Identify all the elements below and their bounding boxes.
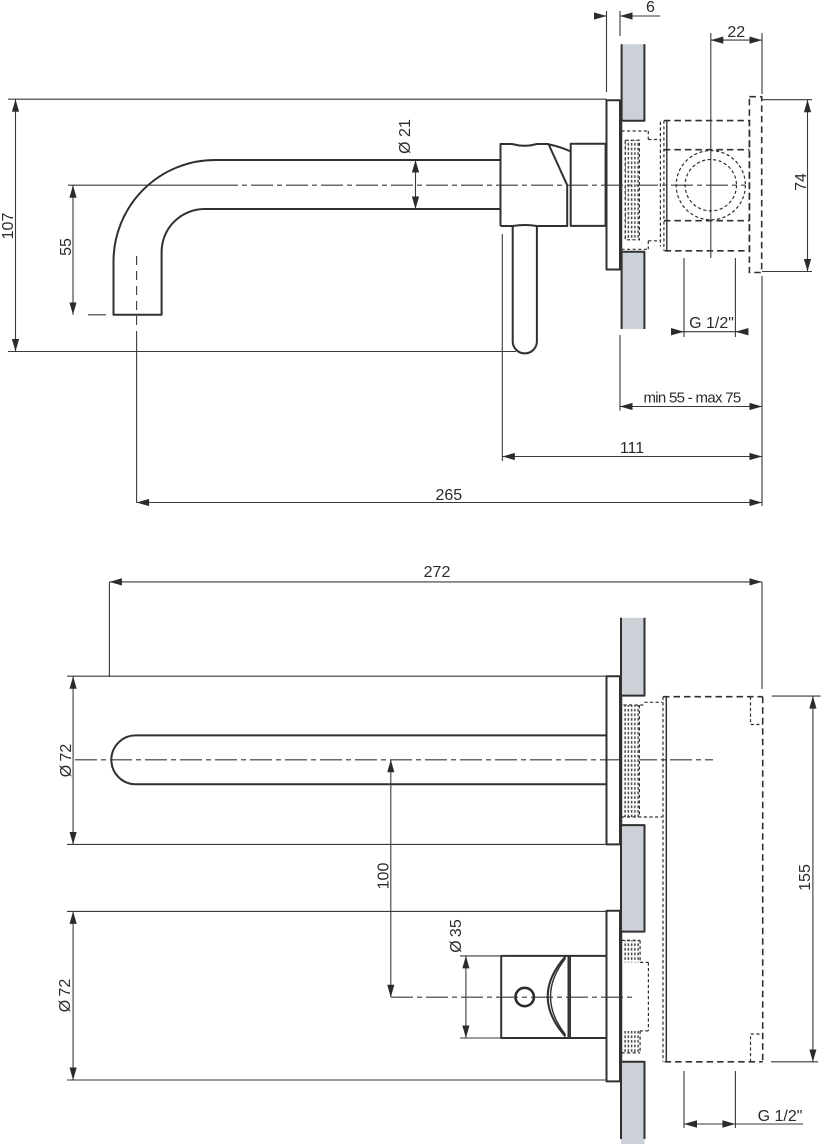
spout outline (114, 160, 501, 315)
svg-text:22: 22 (727, 24, 745, 41)
port outer circle (676, 151, 745, 220)
port inner circle (685, 160, 736, 211)
thread hatch block (625, 140, 639, 240)
spout thread hatch (623, 705, 639, 817)
lever handle (513, 226, 537, 353)
back plate hidden rect (749, 97, 761, 273)
svg-text:55: 55 (58, 238, 75, 256)
valve body plan hidden outline (662, 697, 664, 1062)
dimension min 55 - max 75 (620, 276, 762, 506)
body plan top notch (751, 697, 763, 725)
svg-text:G 1/2": G 1/2" (758, 1108, 803, 1125)
handle escutcheon plan (607, 911, 621, 1082)
spout plan centerline (75, 759, 713, 761)
svg-text:6: 6 (646, 0, 655, 16)
svg-text:G 1/2": G 1/2" (689, 315, 734, 332)
lever silhouette arc (550, 145, 571, 152)
spout thread dashed outline (621, 702, 662, 817)
dimension 22 (761, 33, 763, 94)
handle centerline (391, 996, 632, 998)
valve body hidden rect (664, 121, 750, 251)
dimension 55 (88, 314, 106, 316)
spout plan outline (111, 735, 606, 784)
wall bar 2 (621, 825, 645, 932)
body edge dashed pair (659, 122, 661, 247)
handle rough-in front face line (620, 932, 622, 1062)
sleeve (571, 144, 606, 226)
G1/2 port extension lines (684, 258, 735, 337)
knob face inner edge (569, 956, 571, 1038)
dimension 111 (501, 234, 503, 461)
dimension diameter 21 (415, 160, 417, 209)
wall upper bar (622, 44, 645, 121)
dimension G 1/2 bottom (684, 1071, 735, 1128)
dimension 272 (109, 582, 762, 689)
valve body front edge (666, 121, 668, 251)
dimension 265 (137, 502, 762, 504)
dimension diameter 72 spout (67, 676, 607, 844)
valve body plan front edge (665, 697, 667, 1062)
svg-text:74: 74 (793, 173, 810, 191)
wall lower bar (622, 252, 645, 329)
svg-text:265: 265 (435, 487, 462, 504)
body plan bottom notch (751, 1034, 763, 1062)
valve body section lines (664, 150, 750, 221)
spout centerline vertical (136, 256, 138, 336)
spout escutcheon plan (607, 676, 621, 844)
handle knob plan (501, 956, 568, 1038)
dimension diameter 72 handle (67, 911, 607, 1080)
port vertical centerline (710, 33, 712, 258)
svg-text:272: 272 (424, 564, 451, 581)
dimension diameter 35 (460, 956, 505, 1038)
svg-text:Ø 35: Ø 35 (448, 919, 465, 953)
escutcheon plate (607, 100, 621, 269)
svg-text:107: 107 (0, 213, 17, 240)
dimension 74 (762, 100, 812, 272)
dimension 155 (771, 696, 821, 1062)
handle stem lines (569, 956, 607, 1038)
svg-text:Ø 72: Ø 72 (57, 979, 74, 1013)
thread step dashed outline (621, 131, 660, 249)
wall bar 1 (621, 618, 645, 696)
handle thread hatch upper (623, 940, 640, 962)
knob crescent inner (551, 958, 566, 1034)
svg-text:Ø 21: Ø 21 (397, 119, 414, 154)
svg-text:111: 111 (620, 440, 644, 457)
main horizontal centerline (68, 184, 216, 186)
dimension G 1/2 top (672, 331, 749, 333)
mixer body (501, 144, 568, 226)
wall bar 3 (621, 1062, 645, 1144)
thread hatch dashed border (625, 140, 639, 240)
dimension 6 (607, 11, 621, 92)
svg-text:155: 155 (797, 864, 814, 891)
handle thread hatch lower (623, 1031, 640, 1053)
svg-text:min 55 - max 75: min 55 - max 75 (643, 390, 740, 407)
handle cartridge dashed outline (621, 940, 648, 1053)
svg-text:100: 100 (376, 863, 393, 890)
rough-in front face line (620, 121, 622, 252)
knob crescent outer (548, 957, 566, 1037)
handle pin circle (516, 988, 534, 1006)
dimension 100 (390, 760, 392, 997)
svg-text:Ø 72: Ø 72 (58, 744, 75, 778)
spout rough-in front face line (620, 696, 622, 826)
dimension 107 (8, 99, 607, 351)
